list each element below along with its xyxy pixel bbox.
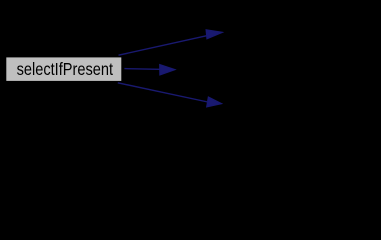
edge to middle callee (wire) xyxy=(124,68,159,71)
svg-text:selectIfPresent: selectIfPresent xyxy=(17,59,113,79)
edge to bottom callee (wire) xyxy=(118,83,208,102)
edge to top callee (wire) xyxy=(119,35,209,55)
node selectIfPresent (box) xyxy=(6,57,122,82)
arrowhead bottom xyxy=(207,97,222,107)
arrowhead middle xyxy=(160,64,176,75)
arrowhead top xyxy=(206,30,223,39)
